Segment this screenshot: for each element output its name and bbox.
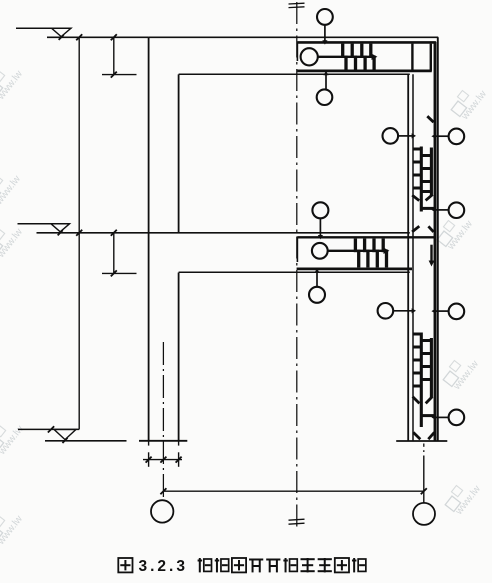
dim tick at (178.6,459.6) [176,457,182,463]
rebar callout circle A1 (top) [317,9,333,25]
upper ladder right tie rungs [421,154,431,157]
wall bar anchored down from beam [430,245,432,262]
middle beam stirrup bar 4 [382,239,385,253]
svg-text:3.2.3: 3.2.3 [139,558,188,575]
elevation mark 3 tip tick [62,438,67,443]
lower ladder right tie rungs [421,339,431,342]
grid bubble E2 (bottom right) [413,503,435,525]
upper lap end chevron left [412,195,419,200]
right wall axis below base (x=423.8) [423,444,425,447]
figure caption 图 3.2.3 构件配筋简化表示方法 (drawn as strokes) [118,558,132,572]
elevation mark 1 datum line [16,27,72,29]
left wall inner edge upper (x=178.6) [178,74,180,232]
middle beam stirrup bar 3 [372,239,375,253]
elevation mark 2 datum line [18,223,71,225]
bottom grid dimension line (y=491.2) [163,490,423,492]
top beam top thick line (y=42.4) [297,41,436,44]
storey dimension line upper segment (x=113.8) [113,37,115,74]
upper lap end chevron right [426,195,433,201]
leader from B1 to wall [398,135,412,137]
elevation mark 1 triangle [52,28,72,36]
dim tick at (423.8,491.2) [421,488,427,494]
elevation level line 1 (y=37.3) [47,36,149,38]
middle beam box left edge (x=297.4) [296,237,298,262]
dim tick at (113.8,74.6) [111,72,117,78]
dim tick at (79.2,232.8) [76,230,82,236]
grid bubble E1 (bottom left) [151,500,173,522]
lower ladder bottom rung [421,414,434,417]
top beam stirrup bar 1 [341,44,344,58]
right wall outer thin edge [437,37,439,441]
top beam bottom thick line (y=70.9) [297,70,432,73]
right wall inner edge line b (x=413.0) [412,74,414,441]
lower ladder left tie rungs [413,333,421,336]
dim tick at (148.6,459.6) [146,457,152,463]
leader from D1 to wall [393,310,412,312]
top beam stirrup bar 4 [369,44,372,58]
top beam box left edge (x=297.4) [296,42,298,61]
leader from A1 down to beam [324,25,326,41]
middle beam longitudinal bar with arrow [328,250,384,252]
rebar callout circle D2 [449,304,465,320]
upper wall vertical bar 2 (x=431.7) [430,148,433,197]
elevation mark 2 triangle [51,224,70,232]
left wall inner edge lower (x=178.6) [178,273,180,441]
right wall base line [396,440,447,442]
main centerline axis (dash-dot, x=296.8) [296,2,298,528]
top beam stirrup bar 2 [351,44,354,58]
lower wall vertical bar 2 (x=432) [430,338,433,397]
stub below base at outer face [148,441,150,446]
faint background watermarks [0,60,25,102]
leader from B2 to wall [434,135,449,137]
middle beam stirrup bar 2 [363,239,366,253]
thickness dim extension right (x=178.6) [178,452,180,467]
rebar circle A2 in top beam [301,48,318,65]
dimension stub line at y=74.6 [102,74,137,76]
dim tick at (113.8,37.3) [111,34,117,40]
leader from C1 down to middle beam [319,218,321,236]
dimension extension vertical (x=79.2) [78,37,80,429]
upper ladder bottom rung [421,207,434,210]
leader from A3 up to beam soffit [325,74,327,90]
dim tick at (113.8,232.8) [111,230,117,236]
lower lap end chevron left [413,397,420,404]
elevation mark 3 triangle [54,429,76,439]
rebar callout circle B2 [449,129,465,145]
left wall outer edge (x=148.6) [148,37,150,441]
top slab soffit thin line (y=74.3) [179,73,410,75]
elevation mark 2 tip tick [58,230,63,235]
leader from D2 to wall [434,310,449,312]
left wall base line [139,440,187,442]
leader from B3 to wall [434,209,449,211]
wall bar hook diagonal (upper) [427,116,433,122]
dim tick at (163.4,491.2) [160,488,166,494]
rebar callout circle D1 [378,303,394,319]
top outer edge line (y=37.3) [149,36,439,38]
rebar callout circle D3 [449,410,465,426]
left wall centerline axis (dash-dot, x=163.4) [162,342,164,500]
rebar callout circle B3 [449,202,465,218]
stub below base at inner face [178,441,180,446]
top beam longitudinal bar with arrow [318,56,372,58]
dimension stub line at y=273.4 [102,272,137,274]
elevation mark 1 tip tick [59,35,64,40]
thickness dim extension left (x=148.6) [148,452,150,467]
middle beam bottom thick line (y=268.9) [297,267,412,270]
leader from C3 up to beam soffit [316,271,318,287]
rebar circle C2 in middle beam [312,243,328,259]
dim tick at (79.2,37.3) [76,34,82,40]
leader from D3 to wall [434,416,449,418]
rebar callout circle C1 [312,202,328,218]
rebar callout circle B1 [383,128,399,144]
middle beam stirrup bar 1 [354,239,357,253]
dim tick at (113.8,273.4) [111,270,117,276]
axis break symbol top of centerline [289,2,305,5]
rebar callout circle A3 [317,89,333,105]
floor slab soffit thin line (y=272.2) [179,271,410,273]
storey dimension line lower segment (x=113.8) [113,233,115,274]
lower wall vertical bar 1 (x=421) [420,333,423,428]
right wall outer thick edge [434,42,437,441]
middle beam top thick line (y=237.3) [297,236,436,238]
corner column box left edge (x=412.4) [411,44,413,71]
upper wall vertical bar 1 (x=421) [420,147,423,212]
elevation mark 3 tick on datum [48,426,54,432]
right wall inner edge line a (x=408.2) [407,74,409,441]
leader from grid line to E2 [423,491,425,503]
ground/base level line left (y=440.8) [45,440,127,442]
dim tick at (163.4,459.6) [160,457,166,463]
upper ladder left tie rungs [413,148,421,151]
elevation level line 2 / slab top line (y=232.8) [37,232,410,234]
axis break symbol bottom of centerline [289,519,305,520]
corner column box right edge (x=430.8) [430,44,432,71]
rebar callout circle C3 [309,287,325,303]
lower lap end chevron right [426,397,433,404]
wall thickness dimension line (y=459.6) [143,459,182,461]
middle junction chevron right [428,226,433,232]
base chevron right [428,432,434,439]
elevation mark 3 datum line [18,428,79,430]
middle junction chevron left [412,226,419,232]
base chevron left [413,432,420,439]
top beam stirrup bar 3 [360,44,363,58]
